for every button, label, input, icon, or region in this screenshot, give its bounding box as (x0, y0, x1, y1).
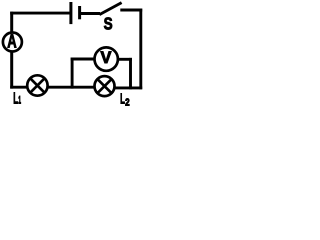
battery E short plate (78, 6, 81, 19)
battery E long plate (69, 2, 72, 24)
ammeter A1 (3, 33, 22, 52)
voltmeter U1 (95, 47, 118, 70)
wire top-right horizontal (120, 9, 142, 12)
wire top-left horizontal (10, 12, 69, 15)
voltmeter branch top-left wire (71, 58, 95, 61)
lamp L1 label (13, 91, 21, 108)
svg-text:1: 1 (18, 95, 21, 107)
voltmeter branch left vertical wire (71, 58, 74, 89)
wire bottom middle horizontal (47, 86, 95, 89)
svg-text:A: A (7, 31, 16, 51)
voltmeter branch top-right wire (117, 58, 132, 61)
wire bottom-left horizontal (10, 86, 28, 89)
wire bottom-right horizontal (114, 86, 142, 89)
wire battery to switch (81, 12, 100, 15)
wire left vertical lower (10, 51, 13, 89)
switch S blade (99, 3, 121, 15)
voltmeter branch right vertical wire (129, 58, 132, 89)
wire left vertical upper (10, 12, 13, 33)
svg-text:S: S (104, 14, 113, 34)
lamp L1 (27, 75, 47, 95)
lamp L2 (95, 76, 115, 96)
lamp L2 label (120, 91, 130, 109)
svg-text:V: V (101, 48, 112, 67)
wire right vertical (139, 9, 142, 90)
svg-text:2: 2 (125, 98, 130, 108)
